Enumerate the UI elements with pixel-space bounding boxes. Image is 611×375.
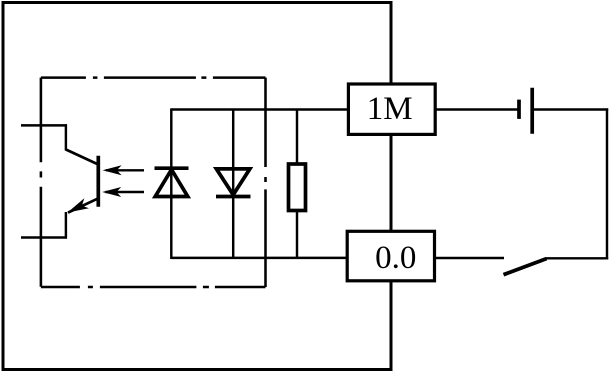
diode D2 (reverse, pointing down) anode bar	[216, 167, 251, 171]
svg-text:1M: 1M	[367, 91, 413, 127]
wire: D1 branch vertical	[170, 108, 172, 259]
terminal box 1M	[348, 84, 435, 134]
wire: resistor branch top	[296, 110, 298, 165]
wire: emitter stub crossing boundary	[21, 236, 67, 238]
phototransistor collector diagonal	[66, 150, 98, 165]
optocoupler dash-dot boundary top edge	[41, 76, 266, 79]
optocoupler dash-dot boundary right edge	[264, 78, 267, 287]
wire: D2 branch vertical	[232, 110, 234, 258]
light arrow 1 head	[103, 165, 122, 175]
optocoupler dash-dot boundary bottom edge	[41, 286, 266, 289]
phototransistor emitter arrowhead	[68, 198, 90, 212]
switch S1 blade	[504, 259, 547, 275]
wire: right rail to switch	[546, 257, 608, 259]
wire: collector vertical	[65, 124, 67, 150]
light arrow 2 head	[102, 187, 121, 197]
wire: top bus from D1 to 1M terminal	[171, 108, 348, 110]
wire: 1M to battery negative	[435, 108, 519, 110]
wire: 0.0 to switch contact	[435, 257, 505, 259]
wire: battery positive to right rail	[532, 108, 608, 110]
optocoupler dash-dot boundary left edge	[40, 78, 43, 287]
diode D2 triangle	[216, 169, 250, 195]
light arrow 1 shaft	[106, 169, 144, 171]
battery positive long plate	[530, 88, 534, 134]
wire: right rail vertical	[606, 108, 608, 259]
wire: collector stub crossing boundary	[21, 124, 67, 126]
resistor R (input resistor) body	[289, 164, 306, 211]
battery negative short plate	[517, 100, 521, 119]
diode D2 cathode bar	[216, 195, 251, 199]
phototransistor Q1 base bar	[96, 156, 100, 207]
wire: bottom bus from D1 to 0.0 terminal	[171, 257, 347, 259]
diode D1 triangle	[155, 170, 188, 197]
svg-text:0.0: 0.0	[375, 240, 416, 276]
phototransistor emitter diagonal	[68, 198, 98, 212]
terminal box 0.0	[347, 231, 434, 280]
wire: resistor branch bottom	[296, 211, 298, 258]
light arrow 2 shaft	[106, 191, 145, 193]
wire: emitter vertical	[65, 212, 67, 239]
PLC outer enclosure box	[3, 3, 391, 370]
diode D1 (LED, pointing up) cathode bar	[155, 166, 189, 170]
